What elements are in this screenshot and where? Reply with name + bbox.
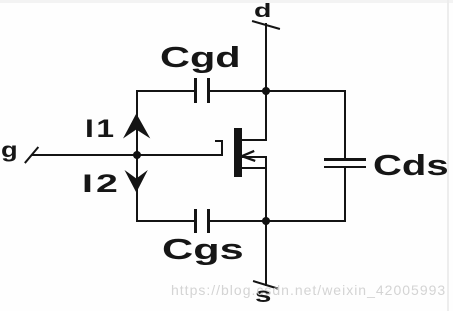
- wire: top rail right segment (Cgd to right branch): [210, 90, 346, 92]
- MOSFET Q1 channel bar: [234, 128, 243, 178]
- capacitor Cgs right plate: [207, 209, 210, 233]
- label I2: [82, 172, 121, 197]
- MOSFET Q1 body arrowhead: [239, 148, 259, 164]
- capacitor Cgd right plate: [207, 78, 210, 103]
- MOSFET Q1 body lead: [242, 156, 266, 158]
- label I1: [85, 117, 117, 142]
- wire: right branch lower vertical: [344, 168, 346, 222]
- capacitor Cgs left plate: [194, 209, 197, 233]
- MOSFET Q1 drain lead: [242, 139, 266, 141]
- label d: [254, 2, 271, 21]
- label g: [1, 140, 18, 161]
- wire: top rail left segment (gate loop to Cgd): [136, 90, 195, 92]
- label Cgd: [160, 44, 241, 73]
- wire: drain vertical (d terminal to MOSFET drain): [265, 23, 267, 141]
- wire: bottom rail left segment: [136, 220, 195, 222]
- terminal slash s: [253, 280, 279, 290]
- MOSFET Q1 source lead: [242, 167, 266, 169]
- capacitor Cds top plate: [324, 158, 366, 161]
- terminal slash g: [24, 146, 39, 164]
- arrowhead I1 (up): [120, 110, 154, 142]
- label Cds: [373, 152, 449, 181]
- capacitor Cgd left plate: [194, 78, 197, 103]
- watermark: [171, 283, 446, 297]
- MOSFET Q1 gate plate vertical: [221, 140, 224, 157]
- wire: gate lead horizontal: [31, 154, 222, 156]
- arrowhead I2 (down): [120, 167, 154, 199]
- label s: [255, 285, 271, 306]
- junction dot gate node: [133, 151, 141, 159]
- wire: left vertical branch: [136, 90, 138, 222]
- MOSFET Q1 gate plate top nub: [215, 140, 223, 143]
- capacitor Cds bottom plate: [324, 166, 366, 169]
- junction dot drain node: [262, 87, 270, 95]
- wire: source vertical (MOSFET source to s terminal): [265, 156, 267, 286]
- wire: right branch upper vertical: [344, 90, 346, 160]
- wire: bottom rail right segment: [210, 220, 346, 222]
- label Cgs: [162, 236, 244, 265]
- junction dot source node: [262, 217, 270, 225]
- terminal slash d: [252, 20, 281, 30]
